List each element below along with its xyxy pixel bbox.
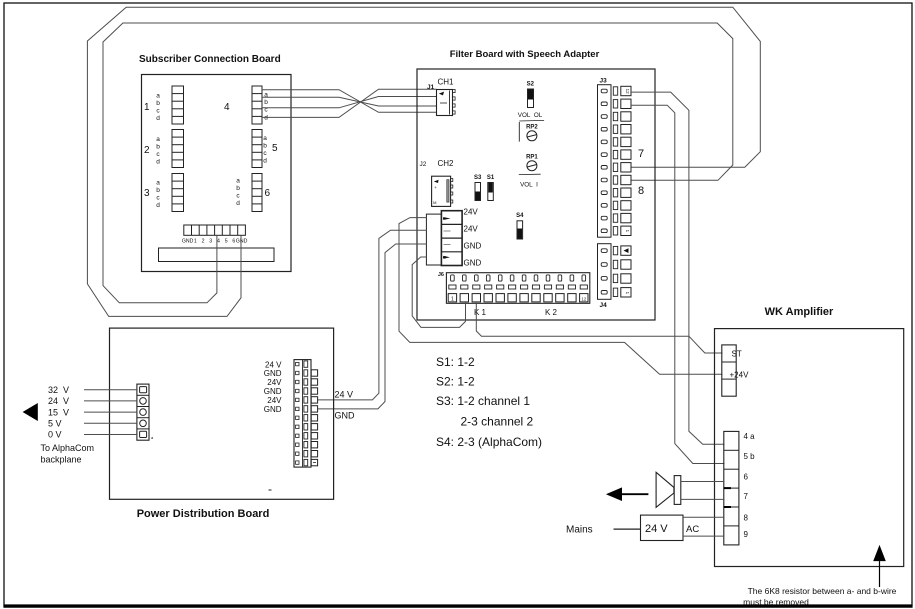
svg-text:32 V: 32 V — [48, 385, 69, 395]
svg-text:b: b — [264, 99, 268, 106]
connector block 3 — [144, 174, 184, 212]
svg-text:a: a — [156, 180, 160, 187]
svg-text:GND: GND — [264, 369, 282, 378]
svg-text:S4: S4 — [516, 213, 524, 219]
note text 6K8 resistor — [743, 586, 897, 607]
svg-text:a: a — [263, 135, 267, 142]
svg-text:backplane: backplane — [41, 455, 82, 465]
svg-text:S3: S3 — [474, 175, 482, 181]
wire W2: strip GND loop to J3 row 7 — [87, 7, 760, 316]
svg-text:GND: GND — [335, 411, 356, 421]
label ST — [732, 350, 742, 359]
power distribution board box — [110, 328, 334, 499]
label GND on wire — [335, 411, 356, 421]
connector block 2 — [144, 130, 184, 168]
svg-text:7: 7 — [744, 492, 749, 501]
svg-text:AC: AC — [686, 524, 699, 535]
label 24 V on wire — [335, 390, 354, 400]
wire W1: strip pin 4 loop to J3 row 8 — [103, 23, 733, 303]
svg-text:a: a — [156, 136, 160, 143]
svg-text:d: d — [156, 159, 160, 166]
svg-text:4: 4 — [217, 239, 220, 245]
svg-text:d: d — [236, 200, 240, 207]
svg-text:9: 9 — [744, 530, 749, 539]
label AC — [686, 524, 699, 535]
svg-text:2: 2 — [202, 239, 205, 245]
svg-text:+: + — [434, 185, 437, 190]
wire 24V box to pin 8 — [683, 516, 725, 518]
svg-text:7: 7 — [638, 148, 644, 160]
WK amplifier box — [715, 329, 904, 567]
svg-text:VOL I: VOL I — [520, 182, 538, 189]
label Mains — [566, 525, 593, 536]
label +24V — [730, 370, 750, 379]
arrow left (speaker out) — [606, 487, 649, 501]
svg-text:Mains: Mains — [566, 525, 593, 536]
svg-text:24 V: 24 V — [265, 360, 282, 369]
wire pair d (crossover) — [262, 89, 437, 117]
svg-text:24V: 24V — [464, 225, 479, 234]
card edge rectangle — [159, 248, 275, 262]
svg-text:2: 2 — [144, 145, 150, 156]
svg-text:J4: J4 — [600, 302, 608, 309]
svg-text:a: a — [156, 93, 160, 100]
connector block 1 — [144, 86, 184, 124]
speaker output connector pins 4a-9 — [724, 431, 739, 545]
label To AlphaCom backplane — [41, 443, 95, 465]
wire +24V: filter cell1 to WK amplifier +24V — [399, 218, 723, 375]
svg-text:d: d — [156, 202, 160, 209]
wire pair c (crossover) — [262, 97, 437, 108]
arrow to backplane (left) — [23, 403, 38, 421]
label 8 — [638, 185, 644, 197]
svg-text:GND: GND — [264, 387, 282, 396]
svg-text:GND: GND — [464, 259, 482, 268]
switch S1 — [487, 175, 495, 201]
wire pair b (crossover) — [262, 97, 437, 106]
svg-text:15 V: 15 V — [48, 407, 69, 417]
svg-text:12: 12 — [581, 296, 586, 301]
connector block 6 — [236, 174, 270, 212]
svg-text:1: 1 — [144, 102, 150, 113]
wire 24V: power board row5 to filter cell 24V-2 — [318, 230, 427, 400]
svg-text:J2: J2 — [420, 161, 427, 168]
svg-text:6: 6 — [744, 472, 749, 481]
label K2 — [545, 308, 558, 317]
svg-text:24 V: 24 V — [48, 396, 69, 406]
wire: J6 pin K1-2 to WK amplifier ST junction — [476, 303, 722, 354]
svg-text:8: 8 — [638, 185, 644, 197]
svg-text:S2: S2 — [527, 82, 535, 88]
subscriber connection board box — [142, 75, 292, 272]
wire speaker to pin 6 — [681, 481, 725, 483]
GND pin strip (8 pins) — [182, 225, 248, 245]
svg-text:1: 1 — [194, 239, 197, 245]
svg-text:12: 12 — [625, 89, 630, 95]
svg-text:b: b — [236, 185, 240, 192]
svg-text:8: 8 — [744, 513, 749, 522]
switch setting notes — [436, 355, 542, 449]
connector J1 / CH1 — [427, 78, 455, 116]
arrow up (6K8 resistor note) — [873, 545, 886, 587]
svg-text:J1: J1 — [427, 84, 435, 91]
label K1 — [474, 308, 487, 317]
wire pair a (crossover) — [262, 90, 437, 113]
svg-text:b: b — [263, 143, 267, 150]
connector block 5 — [252, 130, 278, 168]
svg-text:b: b — [156, 144, 160, 151]
svg-text:WK Amplifier: WK Amplifier — [765, 306, 834, 318]
power connector labels — [264, 360, 282, 414]
svg-text:The 6K8 resistor between a- an: The 6K8 resistor between a- and b-wire — [748, 586, 897, 596]
connector J3 — [598, 78, 632, 238]
svg-text:ST: ST — [732, 350, 742, 359]
svg-text:5 V: 5 V — [48, 419, 62, 429]
svg-text:1: 1 — [451, 296, 454, 302]
labels 24V 24V GND GND — [464, 208, 482, 268]
connector J2 / CH2 — [420, 159, 455, 206]
potentiometer RP1 — [526, 155, 538, 171]
wire 24V box to pin 9 — [683, 535, 725, 537]
svg-text:CH2: CH2 — [438, 159, 455, 168]
small mark in power board — [269, 489, 272, 491]
svg-text:must be removed: must be removed — [743, 597, 809, 607]
svg-text:3: 3 — [144, 188, 150, 199]
svg-text:b: b — [156, 100, 160, 107]
svg-text:d: d — [156, 115, 160, 122]
switch S3 — [474, 175, 482, 201]
svg-text:Subscriber Connection Board: Subscriber Connection Board — [139, 54, 281, 65]
svg-text:6: 6 — [265, 188, 271, 199]
backplane connector (5-pin) — [137, 384, 154, 440]
wire: J3 row1 down to WK pin 4a — [631, 92, 725, 444]
switch S4 — [516, 213, 524, 239]
svg-text:d: d — [263, 158, 267, 165]
svg-text:a: a — [236, 178, 240, 185]
svg-text:S4: 2-3 (AlphaCom): S4: 2-3 (AlphaCom) — [436, 435, 542, 449]
svg-text:5 b: 5 b — [744, 452, 756, 461]
wire mains to 24V box — [614, 528, 641, 530]
svg-text:RP1: RP1 — [526, 155, 538, 161]
svg-text:GND: GND — [236, 239, 248, 245]
svg-text:24 V: 24 V — [645, 523, 668, 535]
loudspeaker — [656, 472, 681, 507]
wire: J3 row2 down to WK pin 5b — [631, 105, 725, 463]
label 7 — [638, 148, 644, 160]
svg-text:S2: 1-2: S2: 1-2 — [436, 375, 475, 389]
svg-text:d: d — [264, 115, 268, 122]
svg-text:24V: 24V — [267, 378, 282, 387]
svg-text:M: M — [433, 200, 436, 205]
svg-text:K 2: K 2 — [545, 308, 558, 317]
potentiometer RP2 — [519, 120, 544, 141]
svg-text:24 V: 24 V — [335, 390, 354, 400]
svg-text:4 a: 4 a — [744, 432, 756, 441]
svg-text:Power Distribution Board: Power Distribution Board — [137, 508, 270, 520]
connector J6 strip — [438, 272, 590, 303]
filter board box — [417, 69, 655, 320]
filter board title — [450, 49, 600, 60]
label VOL OL — [518, 112, 543, 119]
connector block 4 — [224, 86, 268, 124]
WK amplifier title — [765, 306, 834, 318]
svg-text:CH1: CH1 — [438, 78, 455, 87]
svg-text:2-3 channel 2: 2-3 channel 2 — [461, 415, 534, 429]
svg-text:24V: 24V — [267, 396, 282, 405]
connector J4 — [598, 244, 632, 309]
24V/GND power connector on filter board — [426, 211, 462, 266]
svg-text:VOL OL: VOL OL — [518, 112, 543, 119]
svg-text:To AlphaCom: To AlphaCom — [41, 443, 95, 453]
svg-text:0 V: 0 V — [48, 430, 62, 440]
svg-text:+24V: +24V — [730, 370, 750, 379]
power output connector (12 rows) — [294, 360, 318, 468]
svg-text:J6: J6 — [438, 272, 444, 278]
svg-text:4: 4 — [224, 102, 230, 113]
svg-text:GND: GND — [182, 239, 194, 245]
svg-text:GND: GND — [464, 242, 482, 251]
wire speaker to pin 7 — [681, 498, 725, 500]
svg-text:S3: 1-2 channel 1: S3: 1-2 channel 1 — [436, 394, 530, 408]
svg-text:5: 5 — [272, 143, 278, 154]
svg-text:3: 3 — [209, 239, 212, 245]
24V mains transformer box — [641, 515, 684, 540]
voltage rail labels and stubs — [48, 385, 137, 440]
svg-text:24V: 24V — [464, 208, 479, 217]
pin labels 4a 5b 6 7 8 9 — [744, 432, 756, 539]
svg-text:S1: 1-2: S1: 1-2 — [436, 355, 475, 369]
svg-text:GND: GND — [264, 405, 282, 414]
switch S2 — [527, 82, 535, 108]
svg-text:RP2: RP2 — [526, 125, 538, 131]
svg-text:J3: J3 — [600, 78, 608, 85]
svg-text:5: 5 — [225, 239, 228, 245]
svg-text:Filter Board with Speech Adapt: Filter Board with Speech Adapter — [450, 49, 600, 60]
wire GND: power board row6 to filter cell GND-3 — [318, 244, 427, 409]
ST/+24V connector — [722, 345, 736, 396]
wire GND: filter cell4 to J6 pin K1-1 — [412, 257, 465, 327]
svg-text:b: b — [156, 187, 160, 194]
label VOL I — [519, 174, 541, 188]
subscriber board title — [139, 54, 281, 65]
power board title — [137, 508, 270, 520]
svg-text:S1: S1 — [487, 175, 495, 181]
